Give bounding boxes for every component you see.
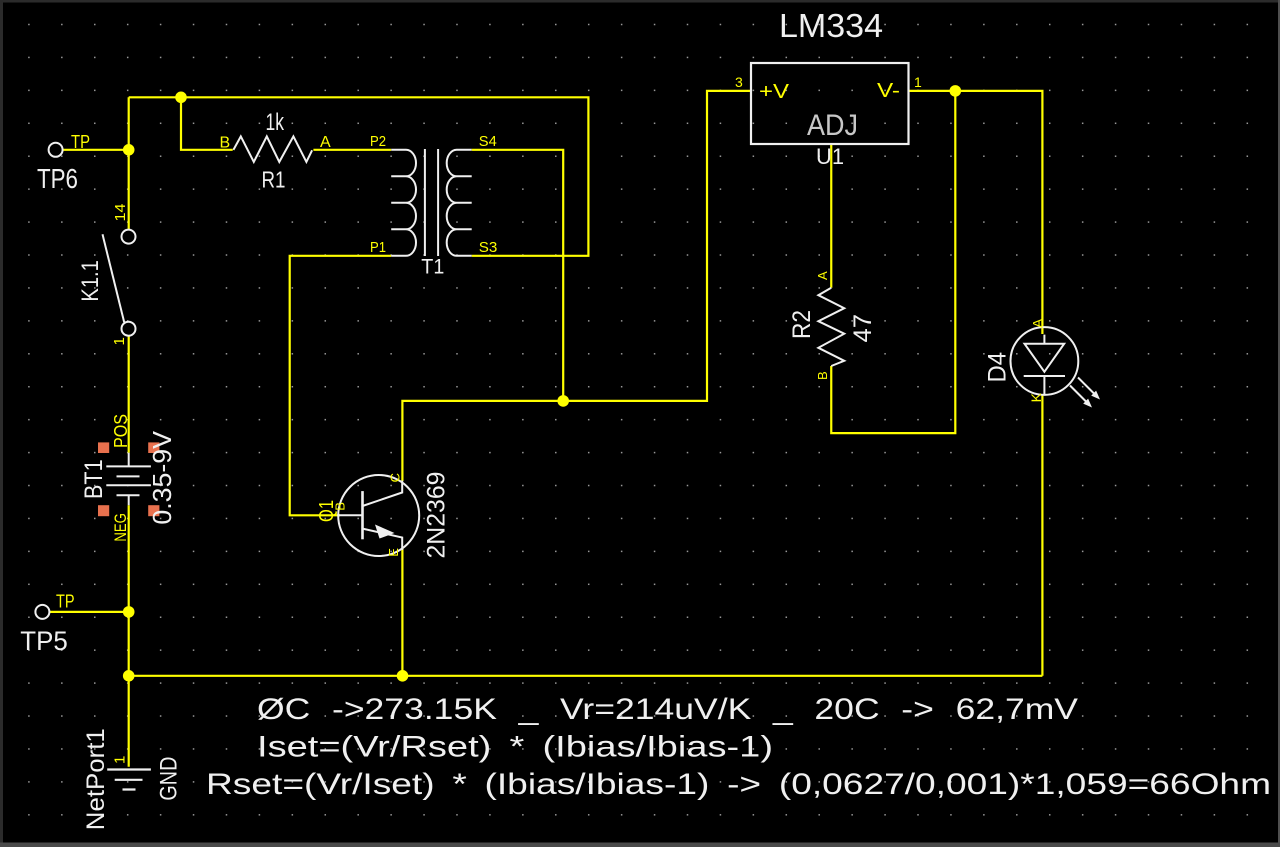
LED D4 anode lead <box>1043 335 1045 344</box>
wire LED D4 cathode down to bottom rail <box>1041 394 1043 676</box>
svg-text:R1: R1 <box>262 166 286 192</box>
svg-text:D4: D4 <box>984 352 1012 383</box>
svg-text:NEG: NEG <box>111 513 130 541</box>
svg-text:NetPort1: NetPort1 <box>82 728 110 830</box>
wire TP6 to left rail <box>63 149 129 151</box>
battery BT1 pin pads (orange squares) <box>98 442 159 516</box>
svg-text:0.35-9V: 0.35-9V <box>147 430 177 524</box>
svg-text:1k: 1k <box>266 109 285 136</box>
svg-text:E: E <box>386 548 401 557</box>
svg-text:TP: TP <box>71 132 90 152</box>
ground symbol GND <box>107 770 151 790</box>
svg-text:14: 14 <box>112 204 129 222</box>
svg-text:2N2369: 2N2369 <box>423 472 451 559</box>
transistor Q1 collector lead <box>363 481 403 507</box>
svg-text:Iset=(Vr/Rset) * (Ibias/Ibias-: Iset=(Vr/Rset) * (Ibias/Ibias-1) <box>257 731 773 764</box>
LED D4 cathode lead <box>1043 376 1045 394</box>
wire LM334 ADJ pin down to R2 pin A <box>830 144 832 288</box>
svg-text:A: A <box>1030 318 1046 328</box>
svg-text:LM334: LM334 <box>779 7 883 44</box>
test point TP6 circle <box>49 143 63 157</box>
LED D4 circle <box>1011 327 1079 395</box>
wire left rail down to K1.1 pin 14 <box>128 97 130 229</box>
svg-text:TP5: TP5 <box>20 626 68 656</box>
LED D4 triangle <box>1025 344 1065 372</box>
svg-text:ADJ: ADJ <box>807 109 858 142</box>
transformer T1 primary winding <box>391 150 416 256</box>
svg-text:R2: R2 <box>788 310 816 339</box>
svg-text:K: K <box>1028 392 1044 402</box>
wire from top-rail junction down and right to R1 pin B <box>181 97 233 150</box>
svg-text:BT1: BT1 <box>80 459 108 499</box>
svg-text:A: A <box>320 134 331 151</box>
junction at bottom-left rail <box>123 670 135 682</box>
LED D4 arrowhead 2 <box>1091 391 1100 400</box>
resistor R1 zigzag <box>233 136 312 162</box>
svg-text:K1.1: K1.1 <box>77 260 104 301</box>
wire Q1 collector up, right and up to LM334 pin 3 <box>402 91 751 481</box>
relay contact K1.1 pin 14 circle <box>122 230 136 244</box>
transistor Q1 circle <box>338 475 419 556</box>
LED D4 cathode bar <box>1024 375 1065 377</box>
svg-text:1: 1 <box>914 74 922 90</box>
wire K1.1 pin 1 down to battery BT1 positive <box>128 336 130 453</box>
wire top rail from left rail to right corner down to T1 S3 <box>129 97 589 256</box>
svg-text:B: B <box>333 502 348 511</box>
transistor Q1 emitter arrowhead <box>375 525 395 539</box>
wire Q1 emitter down to bottom rail <box>401 549 403 676</box>
svg-text:B: B <box>815 371 830 380</box>
IC U1 LM334 box <box>751 63 909 144</box>
svg-text:S3: S3 <box>479 239 498 256</box>
svg-text:POS: POS <box>111 414 131 448</box>
LED D4 emission arrow 2 <box>1078 378 1097 397</box>
junction at pin-1 net <box>950 85 962 97</box>
svg-text:TP: TP <box>56 592 75 612</box>
junction at TP6 <box>123 144 135 156</box>
svg-text:+V: +V <box>759 81 790 103</box>
svg-text:T1: T1 <box>421 255 444 278</box>
transformer T1 secondary winding <box>447 150 472 256</box>
wire TP5 to left rail <box>49 611 128 613</box>
resistor R2 zigzag <box>818 288 844 366</box>
relay contact K1.1 pin 1 circle <box>122 322 136 336</box>
junction at collector net <box>557 395 569 407</box>
wire battery BT1 negative down past TP5 to GND <box>128 505 130 767</box>
wire LM334 pin 1 right and down to LED D4 anode <box>909 91 1043 334</box>
junction at emitter / bottom rail <box>397 670 409 682</box>
svg-text:1: 1 <box>112 756 129 764</box>
wire T1 S4 right and down to collector net junction <box>472 150 564 401</box>
wire R1 pin A to T1 P2 <box>313 149 391 151</box>
wire bottom rail <box>129 675 1043 677</box>
svg-text:3: 3 <box>735 74 743 90</box>
test point TP5 circle <box>35 605 49 619</box>
LED D4 arrowhead 1 <box>1083 399 1092 408</box>
svg-text:ØC ->273.15K _ Vr=214uV/K _ 20: ØC ->273.15K _ Vr=214uV/K _ 20C -> 62,7m… <box>257 693 1078 726</box>
svg-text:GND: GND <box>155 757 182 801</box>
svg-text:1: 1 <box>111 337 128 345</box>
svg-text:C: C <box>388 473 403 482</box>
svg-text:B: B <box>220 135 231 152</box>
LED D4 emission arrow 1 <box>1070 386 1089 405</box>
transistor Q1 base bar <box>361 491 364 539</box>
junction at top rail <box>175 92 187 104</box>
battery BT1 plates <box>106 453 151 506</box>
svg-text:TP6: TP6 <box>37 163 78 194</box>
wire T1 P1 left and down to Q1 base <box>290 256 392 516</box>
junction at TP5 <box>123 606 135 618</box>
svg-text:A: A <box>815 271 830 280</box>
relay contact K1.1 blade <box>103 234 125 322</box>
transistor Q1 emitter lead <box>363 529 403 550</box>
transistor Q1 base lead <box>338 514 362 516</box>
svg-text:V-: V- <box>877 80 900 102</box>
svg-text:P2: P2 <box>370 133 386 150</box>
svg-text:S4: S4 <box>479 133 497 150</box>
transformer T1 core <box>425 149 438 256</box>
svg-text:P1: P1 <box>370 239 386 256</box>
svg-text:Rset=(Vr/Iset) * (Ibias/Ibias-: Rset=(Vr/Iset) * (Ibias/Ibias-1) -> (0,0… <box>206 768 1271 801</box>
wire R2 pin B down, right, up to pin-1 net junction <box>831 91 955 433</box>
svg-text:47: 47 <box>849 314 877 343</box>
svg-text:U1: U1 <box>816 144 844 169</box>
